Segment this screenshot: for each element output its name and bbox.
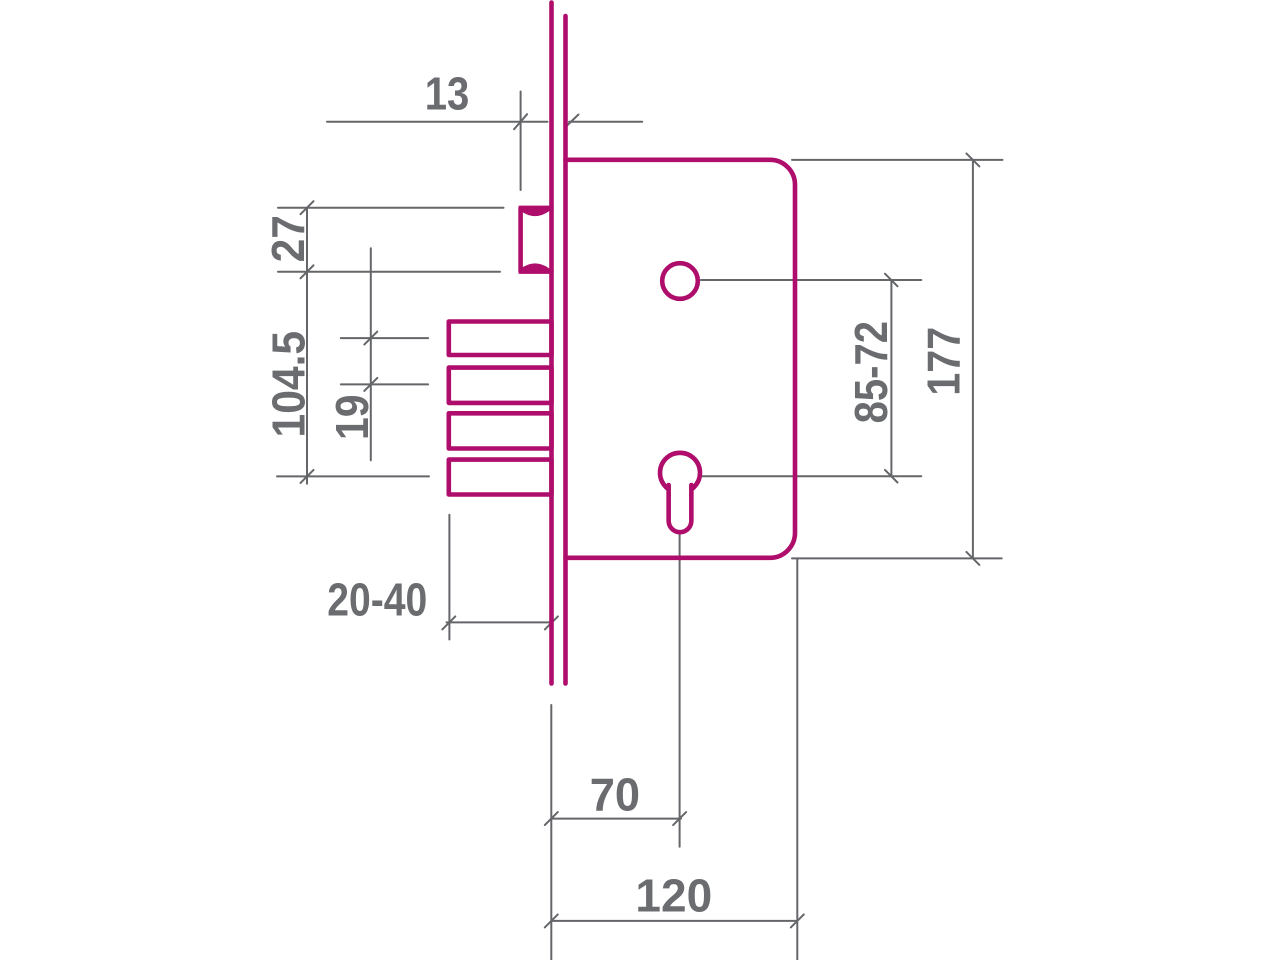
tick 20-40 right [545, 616, 558, 629]
tick 85-72 top [885, 274, 898, 287]
deadbolt bar 1 [449, 322, 552, 356]
deadbolt bar 2 [449, 368, 552, 403]
dimension 20-40 extension line [448, 515, 450, 640]
dimension 13 extension line (latch left edge) [520, 92, 522, 191]
extension line faceplate (long vertical) [550, 705, 552, 960]
dimension 20-40 line [447, 621, 552, 623]
svg-text:13: 13 [425, 69, 470, 120]
dimension 19 vertical line [370, 248, 372, 460]
dimension 85-72 vertical line [890, 280, 892, 476]
extension line mid (latch bottom) [278, 271, 500, 273]
dimension 177 vertical line [972, 160, 974, 559]
faceplate front line [549, 3, 554, 684]
deadbolt bar 4 [449, 460, 552, 495]
extension line keyhole center vertical [679, 478, 681, 847]
extension line body bottom [792, 557, 1002, 559]
svg-text:19: 19 [328, 394, 379, 440]
tick 19 bottom [364, 378, 377, 391]
tick 177 top [966, 153, 979, 166]
extension line bottom (104.5) [277, 475, 429, 477]
extension line top (latch top) [278, 207, 504, 209]
latch bevel fill bottom [518, 263, 549, 273]
dimension 13 tick left [514, 114, 527, 129]
dimension 70 line [551, 818, 681, 820]
svg-text:20-40: 20-40 [327, 575, 427, 627]
svg-text:85-72: 85-72 [846, 321, 897, 423]
faceplate back line [563, 16, 568, 684]
extension line body right edge vertical [796, 558, 798, 960]
extension line circle center [701, 279, 921, 281]
dimension 120 line [551, 920, 797, 922]
keyhole [660, 453, 700, 493]
tick 104.5 bottom [301, 470, 314, 483]
dimension 13 tick right [567, 115, 579, 127]
spindle hole circle [662, 263, 698, 299]
svg-text:177: 177 [918, 327, 970, 396]
lock body outline [566, 160, 796, 558]
dimension 13 line right segment [569, 121, 642, 123]
extension line bar1 center [341, 337, 428, 339]
extension line bar2 center [341, 383, 428, 385]
tick 85-72 bottom [885, 470, 898, 483]
dimension 13 line left segment [327, 121, 548, 123]
latch bevel fill top [518, 206, 549, 216]
extension line keyhole center [703, 475, 922, 477]
extension line body top [792, 159, 1003, 161]
svg-text:120: 120 [635, 870, 712, 922]
deadbolt bar 3 [449, 413, 552, 448]
tick 177 bottom [966, 552, 979, 565]
svg-text:104.5: 104.5 [264, 331, 315, 438]
svg-text:27: 27 [264, 215, 315, 262]
svg-text:70: 70 [590, 769, 640, 820]
tick 20-40 left [442, 616, 455, 629]
dimension 27/104.5 vertical line [306, 208, 308, 484]
tick 27 bottom [301, 265, 314, 278]
tick 70 left [545, 812, 558, 825]
tick 70 right [673, 812, 686, 825]
tick 19 top [364, 332, 377, 345]
latch bolt outline [521, 208, 552, 272]
tick 120 right [791, 914, 804, 927]
tick 27 top [301, 201, 314, 214]
tick 120 left [545, 914, 558, 927]
